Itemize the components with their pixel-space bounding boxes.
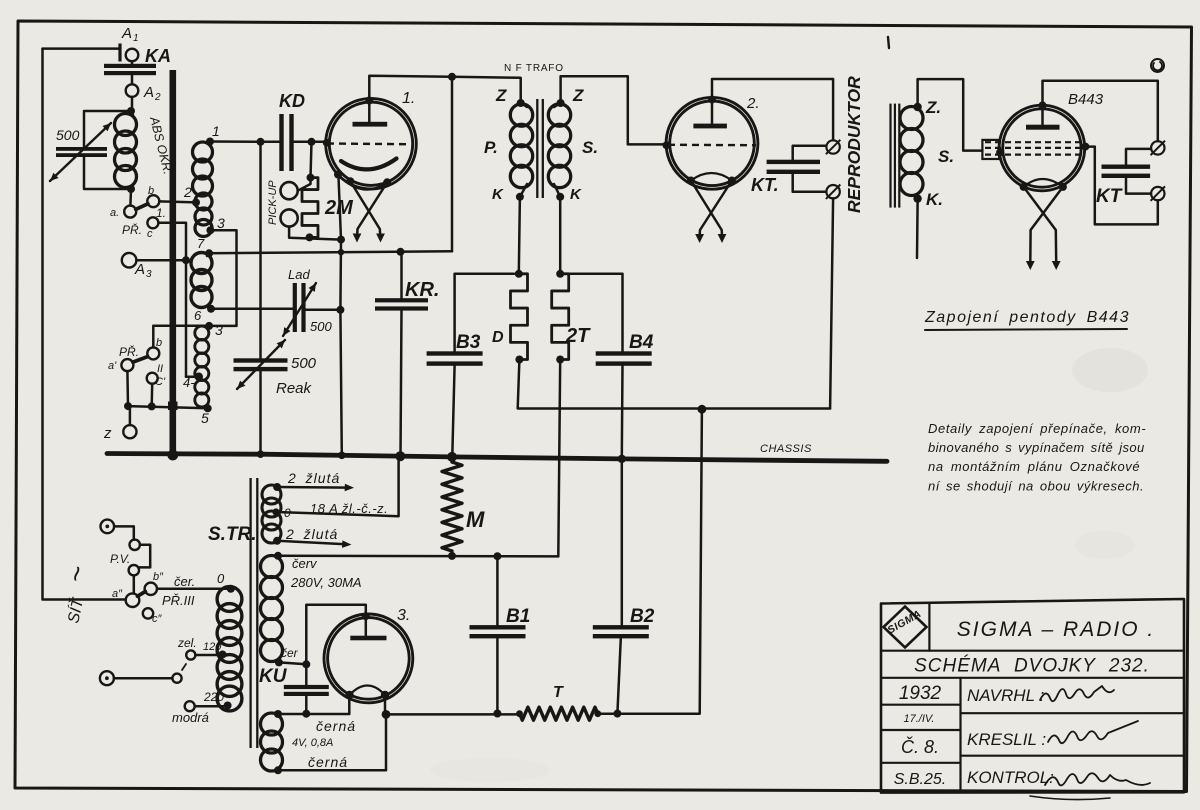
node B plus rail [698, 405, 707, 414]
rectifier 3 envelope [324, 614, 413, 703]
capacitor Reak 500 [234, 358, 288, 371]
label 120 [203, 641, 222, 653]
svg-text:II: II [157, 363, 163, 375]
wire pickup bottom rail [289, 227, 345, 244]
wire secondary K down [559, 197, 562, 274]
pentode terminal lower [1151, 186, 1165, 200]
title SIGMA-RADIO [957, 618, 1155, 641]
triode 2 grid [668, 144, 756, 147]
svg-text:T: T [553, 684, 564, 701]
contact lower pole [172, 674, 181, 683]
tank bottom node [127, 185, 135, 193]
svg-text:500: 500 [56, 127, 80, 143]
label KU [259, 666, 288, 687]
label b upper [148, 185, 154, 197]
svg-text:čer.: čer. [174, 574, 195, 589]
label 1. [156, 206, 166, 220]
svg-text:Zapojení pentody B443: Zapojení pentody B443 [924, 309, 1130, 326]
wire 280V rail [278, 552, 558, 560]
title KONTROL [967, 768, 1054, 787]
title row 2 divider [881, 677, 1184, 679]
svg-text:B443: B443 [1068, 91, 1104, 108]
label B3 [456, 332, 481, 353]
svg-text:2T: 2T [565, 325, 591, 347]
label A1 [121, 25, 139, 44]
svg-text:červ: červ [292, 556, 318, 571]
sigma logo diamond [884, 607, 927, 648]
label cerna low [308, 754, 348, 770]
anode rail tube1 [369, 76, 520, 101]
svg-text:b: b [156, 337, 162, 349]
bus node KR [395, 451, 405, 461]
svg-text:A: A [134, 261, 145, 278]
title KRESLIL [967, 730, 1046, 749]
node top rail [448, 73, 456, 81]
tuning coil tap 7 [197, 236, 213, 257]
label z [103, 425, 112, 442]
mains left rail wire [43, 49, 126, 600]
label KR. [405, 279, 439, 301]
svg-text:PICK-UP: PICK-UP [267, 180, 279, 225]
wire A2 to tank [127, 97, 135, 115]
label 220 [203, 690, 224, 704]
svg-text:Detaily zapojení přepínače, ko: Detaily zapojení přepínače, kom- [928, 421, 1146, 436]
label K. speaker [926, 190, 943, 209]
svg-text:c″: c″ [152, 613, 163, 625]
svg-text:0: 0 [217, 571, 225, 586]
svg-text:S.: S. [938, 147, 954, 166]
wire jog tap3 to lower coil [209, 230, 236, 326]
PV contact lower [129, 565, 139, 575]
label CHASSIS [760, 443, 812, 455]
svg-text:PŘ.: PŘ. [119, 344, 139, 359]
svg-text:c: c [147, 228, 153, 240]
rectifier bottom arc [350, 686, 386, 696]
svg-text:NAVRHL :: NAVRHL : [967, 686, 1044, 705]
note line 4 [928, 479, 1144, 494]
paper smudge 2 [1075, 531, 1135, 559]
paper smudge 3 [430, 758, 550, 782]
svg-text:N F TRAFO: N F TRAFO [504, 63, 564, 74]
switch PRIII contact c'' [143, 608, 153, 618]
switch PR II contact c' [147, 373, 158, 384]
capacitor KA [104, 61, 156, 84]
label cerna mid [316, 718, 356, 734]
label cer tap [281, 646, 299, 660]
capacitor Lad 500 [293, 283, 306, 332]
PV bracket [139, 545, 150, 568]
label II [157, 363, 163, 375]
label 500 antenna [56, 127, 80, 143]
wire speaker Z to grid cap [918, 79, 983, 151]
terminal modra [185, 701, 195, 711]
label 500 Lad [310, 319, 332, 334]
terminal A2 [126, 84, 139, 97]
wire D bottom to B plus rail [518, 360, 830, 409]
chassis bar blob [168, 402, 178, 411]
arrow Lad [283, 283, 316, 336]
svg-text:KONTROL:: KONTROL: [967, 768, 1054, 787]
speaker coil [900, 103, 923, 203]
switch PR II contact a' [121, 359, 133, 371]
node KD junction [257, 138, 265, 146]
label KT. [751, 175, 779, 195]
label B4 [629, 332, 654, 353]
arrow Reak [237, 340, 285, 389]
capacitor B1 [470, 556, 526, 717]
svg-text:KU: KU [259, 666, 288, 687]
note line 3 [928, 459, 1140, 474]
wire b to lower coil tap3 [153, 326, 205, 348]
thick shield bar [167, 70, 178, 460]
wire T to corner [598, 409, 702, 714]
title block outer [881, 599, 1184, 793]
wire pickup top to 2M [298, 178, 311, 191]
paper smudge 1 [1072, 348, 1148, 392]
pentode cathode dots [1020, 183, 1067, 191]
label B443 [1068, 91, 1104, 108]
svg-text:b: b [148, 185, 154, 197]
STR heater winding top [262, 483, 281, 545]
title logo cell divider [928, 603, 930, 651]
svg-text:2.: 2. [746, 95, 760, 112]
title NAVRHL [967, 686, 1044, 705]
triode 1 grid [327, 142, 409, 145]
label zel. [177, 636, 197, 650]
label A3 [134, 261, 152, 280]
label a' lower [108, 360, 117, 372]
svg-text:Č. 8.: Č. 8. [901, 736, 939, 757]
pentode grid nodes [996, 143, 1089, 157]
NF trafo secondary K node [556, 193, 564, 201]
label SIT [63, 595, 87, 624]
reproduktor terminal lower [826, 184, 840, 198]
resistor 2M [302, 174, 318, 242]
svg-text:na montážním plánu Označkové: na montážním plánu Označkové [928, 459, 1140, 474]
label Z primary [495, 86, 507, 105]
svg-text:z: z [103, 425, 112, 442]
capacitor B3 [427, 274, 514, 456]
label a upper [110, 207, 119, 219]
label c'' [152, 613, 163, 625]
chassis bus [107, 454, 887, 462]
pentode grid cap box [982, 140, 999, 159]
signature navrhl [1040, 686, 1114, 701]
triode 1 filament legs [350, 181, 387, 242]
title left row dividers [881, 705, 961, 763]
svg-text:2 žlutá: 2 žlutá [287, 470, 340, 486]
svg-text:B4: B4 [629, 332, 654, 353]
label P.V. [110, 552, 130, 566]
svg-text:6: 6 [194, 308, 202, 323]
svg-text:500: 500 [291, 355, 317, 372]
svg-text:K.: K. [926, 190, 943, 209]
tuning coil lower section [195, 326, 209, 407]
signature kontrol [1030, 773, 1150, 799]
svg-text:280V, 30MA: 280V, 30MA [290, 575, 362, 590]
svg-text:S.: S. [582, 138, 598, 157]
bus node riser341 [338, 452, 346, 460]
switch PR lever [136, 204, 148, 210]
triode 1 cathode dots [334, 171, 391, 187]
label B2 [630, 606, 655, 627]
resistor T [520, 707, 602, 720]
capacitor B2 [593, 459, 649, 718]
wire 18A to bus [276, 457, 399, 516]
svg-text:KR.: KR. [405, 279, 439, 301]
label 2M [324, 197, 354, 219]
switch PRIII lever [138, 592, 146, 597]
svg-text:b″: b″ [153, 571, 164, 583]
label PR III [162, 593, 195, 608]
label A2 [143, 84, 161, 103]
STR tap 220 [195, 705, 224, 708]
svg-text:REPRODUKTOR: REPRODUKTOR [844, 76, 864, 213]
resistor M [442, 457, 462, 556]
title SCHEMA [914, 656, 1150, 677]
anode rail tube2 [712, 79, 833, 140]
svg-text:1.: 1. [156, 206, 166, 220]
title 17 IV [904, 713, 935, 725]
svg-text:2: 2 [183, 184, 192, 200]
pentode anode [1026, 101, 1060, 129]
variable capacitor 500 antenna [56, 147, 131, 189]
label 280V [290, 575, 362, 590]
riser 2M-Lad-bus [338, 177, 344, 455]
svg-text:SCHÉMA DVOJKY 232.: SCHÉMA DVOJKY 232. [914, 656, 1150, 677]
wire b to coil tap2 [159, 201, 196, 202]
label modra [172, 710, 209, 725]
svg-text:M: M [466, 507, 485, 532]
svg-text:černá: černá [308, 754, 348, 770]
tuning coil middle section [191, 253, 212, 309]
svg-text:a.: a. [110, 207, 119, 219]
svg-text:P.V.: P.V. [110, 552, 130, 566]
wire speaker K down [916, 203, 919, 258]
riser to cathode rail [451, 77, 454, 252]
label KD [279, 91, 305, 111]
title right row dividers [961, 713, 1185, 756]
triode 1 anode [353, 97, 388, 127]
svg-text:Z: Z [572, 86, 584, 105]
wire tap5 rail [128, 406, 208, 408]
terminal A3 [122, 253, 137, 268]
svg-text:A: A [121, 25, 132, 42]
arrow 2 zluta bottom [277, 540, 351, 548]
triode 2 envelope [666, 97, 758, 189]
svg-text:D: D [492, 329, 504, 346]
wire A3 to riser [136, 256, 190, 264]
svg-text:K: K [492, 186, 504, 203]
svg-text:P.: P. [484, 138, 498, 157]
STR HT winding [261, 552, 283, 667]
bus node reak [257, 450, 265, 458]
label c upper [147, 228, 153, 240]
label PICK-UP [267, 180, 279, 225]
wire rectifier anode feed [306, 605, 366, 665]
label 2 zluta bottom [285, 526, 338, 542]
label 0 [217, 571, 225, 586]
note line 2 [928, 440, 1145, 455]
svg-text:S.B.25.: S.B.25. [894, 771, 946, 788]
NF trafo primary K node [516, 193, 524, 201]
svg-text:KA: KA [145, 46, 171, 66]
svg-text:B2: B2 [630, 606, 655, 627]
svg-text:a″: a″ [112, 588, 123, 600]
switch PR contact c [147, 217, 158, 228]
label sit tilde [60, 563, 94, 585]
bus node B3 M [447, 452, 457, 462]
wire 4V bottom loop [278, 714, 386, 770]
output rail [386, 710, 523, 717]
svg-text:Lad: Lad [288, 267, 310, 282]
triode 2 filament legs [691, 181, 732, 244]
svg-text:Reak: Reak [276, 380, 313, 397]
triode 1 envelope [326, 98, 417, 189]
svg-text:120: 120 [203, 641, 222, 653]
label 18A [310, 501, 388, 516]
label T [553, 684, 564, 701]
svg-text:KT.: KT. [751, 175, 779, 195]
capacitor KR [375, 252, 428, 456]
wire tap1 to KD [210, 140, 280, 143]
label 2T [565, 325, 591, 347]
svg-text:KRESLIL :: KRESLIL : [967, 730, 1046, 749]
svg-text:2: 2 [154, 92, 161, 103]
terminal A1 [126, 49, 139, 62]
label S. [582, 138, 598, 157]
label K secondary [570, 186, 582, 203]
svg-text:ní se shodují na obou výkresec: ní se shodují na obou výkresech. [928, 479, 1144, 494]
svg-text:S.TR.: S.TR. [208, 524, 257, 545]
resistor 2T [552, 270, 569, 364]
label KT pentode [1096, 186, 1123, 207]
registry mark top right [1151, 59, 1164, 72]
tuning coil tap 4 [183, 373, 203, 391]
svg-text:5: 5 [201, 410, 209, 426]
label cerv [292, 556, 318, 571]
label S. speaker [938, 147, 954, 166]
pentode B443 envelope [999, 105, 1085, 191]
label tube 3 [397, 607, 410, 624]
wire a' down [124, 371, 132, 410]
wire sit upper to PV [114, 526, 134, 539]
triode 2 bottom arc [691, 173, 732, 181]
label 2 zluta top [287, 470, 340, 486]
switch PR II lever [133, 357, 148, 363]
triode 2 anode [693, 96, 727, 129]
terminal pick-up lower [281, 209, 298, 226]
wire 2T bottom riser [558, 360, 560, 557]
svg-text:4V, 0,8A: 4V, 0,8A [292, 737, 333, 749]
arrow 2 zluta top [277, 484, 354, 492]
svg-text:SIGMA – RADIO .: SIGMA – RADIO . [957, 618, 1155, 641]
label cer PRIII [174, 574, 195, 589]
rectifier anode [350, 612, 386, 640]
svg-text:čer: čer [281, 646, 299, 660]
label K primary [492, 186, 504, 203]
wire Lad to riser [305, 306, 344, 314]
svg-text:2 žlutá: 2 žlutá [285, 526, 338, 542]
svg-text:3.: 3. [397, 607, 410, 624]
triode 1 bottom arc [338, 175, 387, 190]
label KA [145, 46, 171, 66]
triode 2 cathode dots [687, 177, 736, 185]
wire tank left branch upper [84, 111, 131, 147]
pentode KT cap [1102, 149, 1152, 194]
wire grid leak top [311, 142, 312, 178]
svg-text:a': a' [108, 360, 117, 372]
label Lad [288, 267, 310, 282]
title row 1 divider [881, 650, 1184, 652]
label 4V08A [292, 737, 333, 749]
label ABS OKR [147, 114, 175, 176]
pentode grids [985, 142, 1085, 154]
title SB25 [894, 771, 946, 788]
wire antenna input A1 from left rail [43, 47, 120, 50]
STR core [249, 478, 258, 748]
label S.TR. [208, 524, 257, 545]
label PR upper [122, 222, 142, 237]
tuning coil tap 5 [201, 404, 212, 426]
STR tap 120 [195, 651, 226, 659]
svg-text:17./IV.: 17./IV. [904, 713, 935, 725]
bus node B4 B2 [618, 455, 626, 463]
svg-text:1.: 1. [402, 90, 415, 107]
dash lower pole [182, 664, 186, 670]
label B1 [506, 606, 530, 627]
svg-text:220: 220 [203, 690, 224, 704]
wire rectifier output [382, 695, 391, 719]
tuning coil tap 1 [206, 123, 220, 146]
svg-text:KD: KD [279, 91, 305, 111]
switch PRIII contact a'' [126, 593, 140, 607]
pentode grid return [1085, 147, 1157, 225]
STR primary [217, 585, 242, 711]
caption zapojeni [924, 309, 1130, 330]
label 500 Reak [291, 355, 317, 372]
label Reak [276, 380, 313, 397]
triode 1 filament arc [341, 159, 397, 170]
svg-text:Z: Z [495, 86, 507, 105]
terminal sit upper [101, 520, 115, 534]
title left column divider [959, 678, 961, 793]
label REPRODUKTOR [844, 76, 864, 213]
terminal sit lower [100, 671, 114, 685]
label b'' [153, 571, 164, 583]
note line 1 [928, 421, 1146, 436]
svg-text:500: 500 [310, 319, 332, 334]
svg-text:C': C' [155, 376, 166, 388]
svg-text:PŘ.III: PŘ.III [162, 593, 195, 608]
label P. [484, 138, 498, 157]
tuning coil tap 6 [194, 305, 215, 323]
wire b'' to STR 0 [157, 588, 231, 591]
tuning coil tap 3 upper [206, 215, 225, 234]
NF trafo secondary [548, 99, 570, 197]
svg-text:3: 3 [217, 215, 225, 231]
cathode rail A [209, 248, 452, 256]
signature kreslil [1048, 721, 1138, 743]
switch PR contact b [147, 195, 159, 207]
svg-text:modrá: modrá [172, 710, 209, 725]
svg-text:K: K [570, 186, 582, 203]
resistor D [511, 270, 528, 364]
tuning coil upper section [193, 142, 213, 237]
speaker coil core [889, 104, 900, 208]
svg-text:Z.: Z. [925, 98, 941, 117]
svg-text:1932: 1932 [899, 683, 942, 704]
